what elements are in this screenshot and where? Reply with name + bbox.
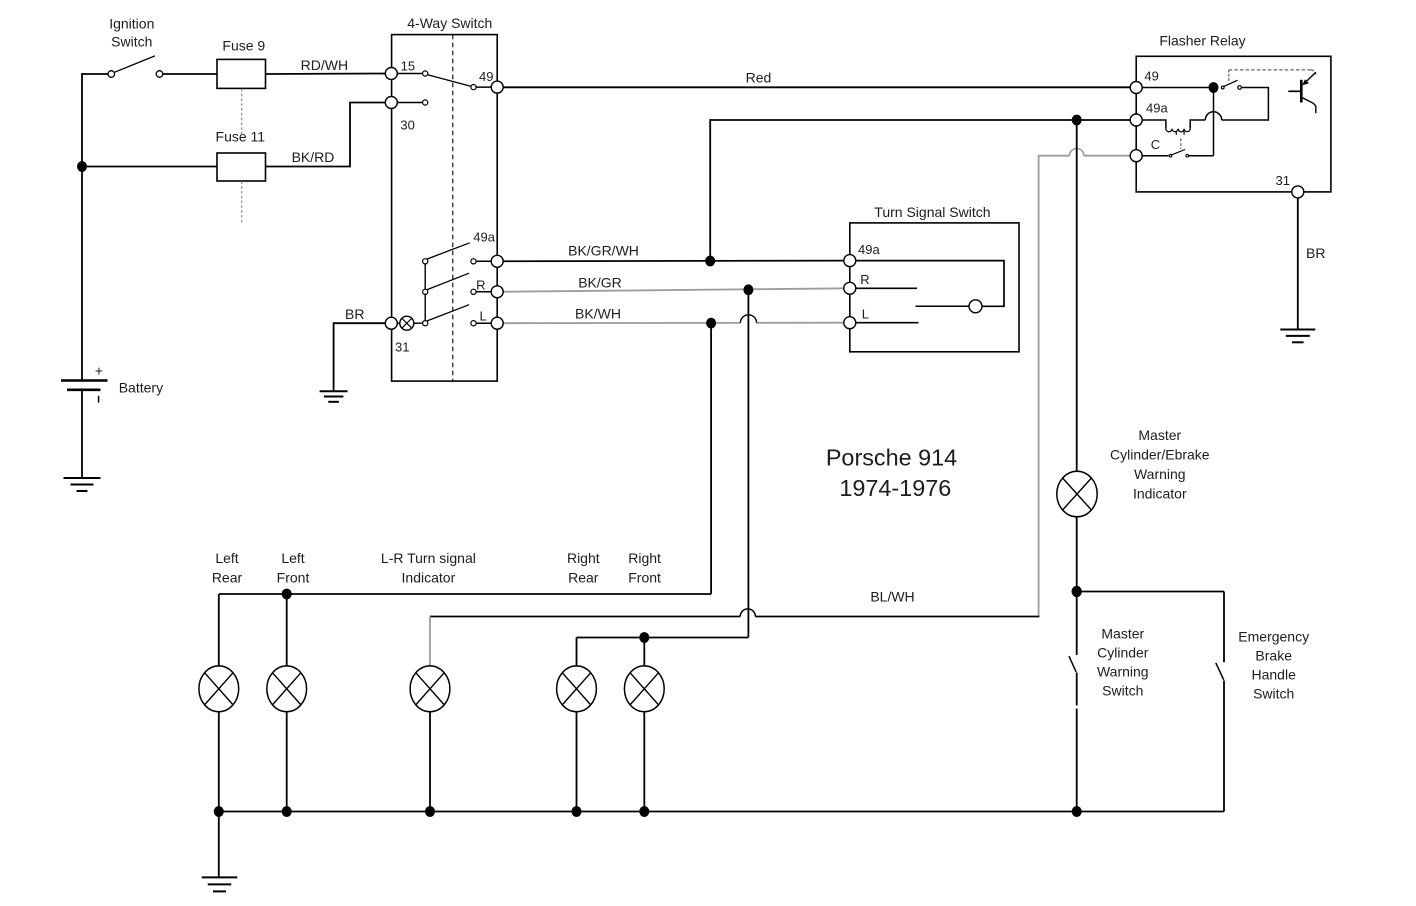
svg-text:Rear: Rear xyxy=(568,570,599,586)
svg-text:R: R xyxy=(476,278,485,293)
svg-text:C: C xyxy=(1151,137,1160,152)
svg-text:+: + xyxy=(95,363,103,379)
svg-text:Indicator: Indicator xyxy=(1133,486,1187,502)
svg-text:Fuse 11: Fuse 11 xyxy=(216,129,266,145)
svg-text:BK/RD: BK/RD xyxy=(292,149,335,165)
svg-text:Right: Right xyxy=(628,550,661,566)
svg-text:49: 49 xyxy=(479,69,493,84)
svg-text:RD/WH: RD/WH xyxy=(301,57,348,73)
svg-text:BR: BR xyxy=(345,306,364,322)
svg-text:L: L xyxy=(862,307,869,322)
svg-text:L-R Turn signal: L-R Turn signal xyxy=(381,550,476,566)
svg-text:Battery: Battery xyxy=(119,380,163,396)
svg-text:Master: Master xyxy=(1101,626,1144,642)
svg-text:R: R xyxy=(860,272,869,287)
svg-text:Indicator: Indicator xyxy=(402,570,456,586)
svg-text:49a: 49a xyxy=(858,242,880,257)
svg-text:BK/GR: BK/GR xyxy=(578,274,622,290)
svg-text:Turn Signal Switch: Turn Signal Switch xyxy=(874,204,990,220)
svg-text:Switch: Switch xyxy=(1253,685,1294,701)
svg-text:Rear: Rear xyxy=(212,570,243,586)
svg-text:BK/WH: BK/WH xyxy=(575,306,621,322)
svg-text:Flasher Relay: Flasher Relay xyxy=(1159,33,1245,49)
svg-text:Switch: Switch xyxy=(1102,683,1143,699)
svg-text:30: 30 xyxy=(400,118,414,133)
svg-text:49a: 49a xyxy=(1146,100,1168,115)
svg-text:Left: Left xyxy=(215,550,238,566)
svg-text:Red: Red xyxy=(746,70,772,86)
svg-text:Warning: Warning xyxy=(1134,466,1186,482)
svg-text:Front: Front xyxy=(277,570,310,586)
svg-text:Ignition: Ignition xyxy=(109,15,154,31)
svg-text:Switch: Switch xyxy=(111,33,152,49)
svg-text:Cylinder: Cylinder xyxy=(1097,645,1149,661)
svg-text:15: 15 xyxy=(401,59,415,74)
svg-text:31: 31 xyxy=(395,340,409,355)
svg-text:Brake: Brake xyxy=(1255,647,1292,663)
svg-text:BK/GR/WH: BK/GR/WH xyxy=(568,243,639,259)
svg-text:Right: Right xyxy=(567,550,600,566)
svg-text:Cylinder/Ebrake: Cylinder/Ebrake xyxy=(1110,447,1210,463)
svg-text:Warning: Warning xyxy=(1097,664,1149,680)
svg-text:1974-1976: 1974-1976 xyxy=(839,475,951,501)
svg-text:Porsche 914: Porsche 914 xyxy=(826,445,957,471)
svg-text:BR: BR xyxy=(1306,245,1325,261)
svg-text:Front: Front xyxy=(628,570,661,586)
svg-text:49a: 49a xyxy=(473,229,495,244)
svg-text:49: 49 xyxy=(1144,68,1158,83)
svg-text:Handle: Handle xyxy=(1252,666,1297,682)
svg-text:Emergency: Emergency xyxy=(1238,628,1309,644)
svg-text:Master: Master xyxy=(1138,427,1181,443)
svg-text:BL/WH: BL/WH xyxy=(870,589,914,605)
svg-text:4-Way Switch: 4-Way Switch xyxy=(407,15,492,31)
svg-text:L: L xyxy=(480,309,487,324)
svg-text:Left: Left xyxy=(281,550,304,566)
svg-text:31: 31 xyxy=(1276,173,1290,188)
svg-text:Fuse 9: Fuse 9 xyxy=(222,37,265,53)
